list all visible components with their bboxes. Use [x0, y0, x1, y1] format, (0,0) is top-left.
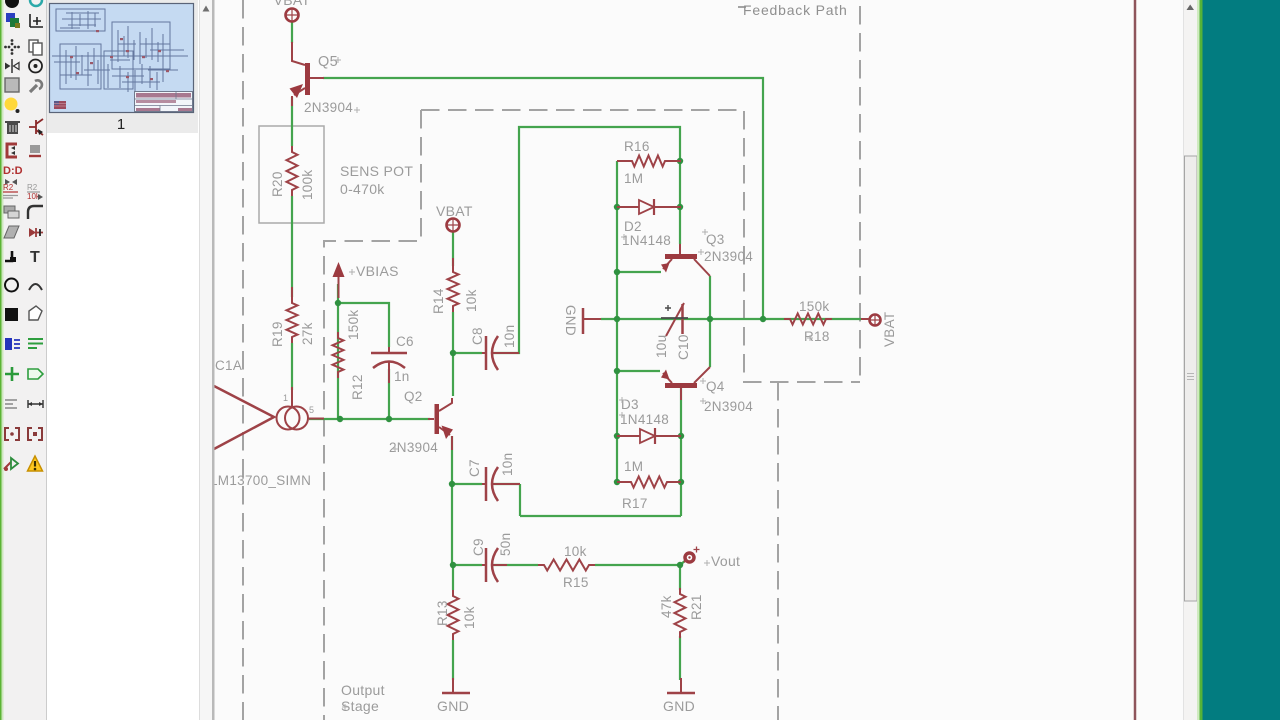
svg-text:Feedback Path: Feedback Path [743, 2, 848, 18]
svg-text:VBAT: VBAT [274, 0, 311, 8]
svg-text:VBAT: VBAT [882, 312, 897, 347]
svg-text:GND: GND [437, 698, 469, 714]
svg-text:1M: 1M [624, 171, 643, 186]
svg-text:T: T [30, 249, 40, 266]
svg-text:2N3904: 2N3904 [304, 100, 353, 115]
svg-text:R13: R13 [435, 600, 450, 626]
svg-text:Q5: Q5 [318, 54, 338, 70]
svg-text:Q3: Q3 [706, 232, 725, 247]
svg-text:SENS POT: SENS POT [340, 163, 413, 179]
svg-text:C6: C6 [396, 334, 414, 349]
svg-text:D2: D2 [624, 219, 642, 234]
svg-text:10n: 10n [502, 325, 517, 348]
svg-text:R12: R12 [350, 374, 365, 400]
svg-text:R2: R2 [3, 183, 14, 192]
svg-text:LM13700_SIMN: LM13700_SIMN [210, 473, 311, 488]
svg-text:D3: D3 [621, 397, 639, 412]
svg-text:C7: C7 [467, 459, 482, 477]
svg-text:VBIAS: VBIAS [356, 263, 399, 279]
svg-text:150k: 150k [799, 299, 829, 314]
svg-text:C9: C9 [471, 538, 486, 556]
svg-text:2N3904: 2N3904 [704, 249, 753, 264]
svg-text:1M: 1M [624, 459, 643, 474]
svg-text:R18: R18 [804, 329, 830, 344]
svg-text:R15: R15 [563, 575, 589, 590]
svg-text:1N4148: 1N4148 [620, 412, 669, 427]
svg-text:5: 5 [309, 405, 314, 415]
svg-text:1: 1 [283, 393, 288, 403]
svg-text:10k: 10k [464, 289, 479, 312]
svg-text:10k: 10k [564, 544, 587, 559]
svg-text:2N3904: 2N3904 [704, 399, 753, 414]
svg-text:Output: Output [341, 682, 385, 698]
svg-text:R17: R17 [622, 496, 648, 511]
svg-text:D:D: D:D [3, 165, 23, 177]
svg-text:R16: R16 [624, 139, 650, 154]
svg-text:R2: R2 [27, 183, 38, 192]
svg-text:C1A: C1A [215, 358, 242, 373]
svg-text:47k: 47k [659, 595, 674, 618]
svg-text:1n: 1n [394, 369, 410, 384]
svg-text:Stage: Stage [341, 698, 379, 714]
svg-text:Q2: Q2 [404, 389, 423, 404]
svg-text:1N4148: 1N4148 [622, 233, 671, 248]
svg-text:150k: 150k [346, 310, 361, 340]
svg-text:Q4: Q4 [706, 379, 725, 394]
svg-text:2N3904: 2N3904 [389, 440, 438, 455]
svg-text:VBAT: VBAT [436, 203, 473, 219]
svg-text:10u: 10u [654, 335, 669, 358]
svg-text:100k: 100k [300, 170, 315, 200]
svg-text:R14: R14 [431, 288, 446, 314]
svg-text:0-470k: 0-470k [340, 181, 385, 197]
svg-text:27k: 27k [300, 322, 315, 345]
svg-text:50n: 50n [498, 533, 513, 556]
svg-text:10n: 10n [500, 453, 515, 476]
svg-text:R20: R20 [270, 171, 285, 197]
svg-text:GND: GND [563, 305, 578, 336]
svg-text:Vout: Vout [711, 553, 740, 569]
svg-text:10k: 10k [462, 606, 477, 629]
svg-text:C10: C10 [676, 334, 691, 360]
svg-text:GND: GND [663, 698, 695, 714]
svg-text:R21: R21 [689, 594, 704, 620]
svg-text:1: 1 [117, 116, 125, 133]
svg-text:R19: R19 [270, 321, 285, 347]
svg-text:C8: C8 [470, 327, 485, 345]
